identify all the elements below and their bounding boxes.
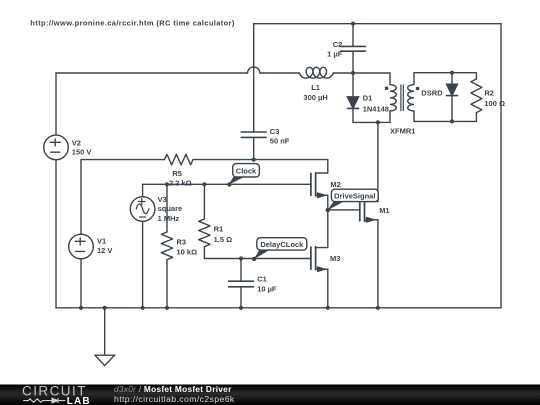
diode D1 — [347, 97, 358, 108]
svg-text:M3: M3 — [330, 254, 340, 263]
svg-text:1N4148: 1N4148 — [363, 104, 389, 113]
svg-text:DelayCLock: DelayCLock — [260, 240, 304, 249]
svg-text:2.2 kΩ: 2.2 kΩ — [169, 179, 192, 188]
wire drive signal net (gate of M1) — [328, 209, 360, 211]
voltage source V3 — [130, 197, 155, 222]
svg-text:V2: V2 — [72, 139, 81, 148]
wire M2 source to M3 drain — [316, 195, 328, 247]
wire secondary loop top — [414, 72, 476, 74]
node delay wire / C1 junction — [239, 256, 243, 260]
svg-text:C1: C1 — [257, 275, 267, 284]
diode DSRD — [447, 84, 458, 95]
wire M1 drain — [365, 122, 378, 201]
node ground rail / M3 source — [326, 306, 330, 310]
node DriveSignal (M2 source / M3 drain / M1 gate) — [326, 208, 330, 212]
wire C1 branch bottom — [240, 287, 242, 308]
node XFMR primary bottom / M1 drain junction — [376, 120, 380, 124]
resistor R3 — [161, 232, 172, 260]
wire C3 branch lower — [253, 138, 255, 159]
wire R1 branch top — [203, 184, 205, 219]
svg-text:1.5 Ω: 1.5 Ω — [214, 235, 233, 244]
svg-text:http://www.pronine.ca/rccir.ht: http://www.pronine.ca/rccir.htm (RC time… — [30, 18, 235, 27]
wire V1 branch top — [80, 160, 82, 235]
svg-text:1 µF: 1 µF — [327, 49, 343, 58]
inductor L1 — [300, 67, 334, 78]
svg-text:M1: M1 — [379, 206, 389, 215]
wire V3 branch top — [142, 184, 144, 196]
svg-text:C2: C2 — [333, 40, 343, 49]
wire top-left horizontal with hop over C3 branch — [56, 67, 390, 73]
net flag DelayCLock — [252, 238, 307, 261]
wire R3 branch top — [166, 184, 168, 232]
svg-text:D1: D1 — [363, 93, 373, 102]
svg-text:1 MHz: 1 MHz — [158, 214, 180, 223]
transformer XFMR1 secondary — [413, 73, 415, 122]
wire R3 branch bottom — [166, 260, 168, 308]
voltage source V2 — [44, 135, 69, 160]
node ground rail / V1 — [79, 306, 83, 310]
svg-text:d3x0r / Mosfet Mosfet Driver: d3x0r / Mosfet Mosfet Driver — [114, 384, 232, 394]
node ground rail / M1 source — [376, 306, 380, 310]
svg-text:R1: R1 — [214, 225, 224, 234]
svg-text:square: square — [158, 204, 183, 213]
svg-text:DriveSignal: DriveSignal — [334, 192, 375, 201]
wire bottom rail — [56, 307, 501, 309]
wire C2 branch upper — [352, 24, 354, 46]
svg-text:LAB: LAB — [67, 396, 91, 405]
svg-text:C3: C3 — [270, 127, 280, 136]
wire right rail — [500, 24, 502, 308]
net flag DriveSignal — [326, 189, 379, 212]
svg-text:10 µF: 10 µF — [257, 284, 277, 293]
wire left rail top (V2 to top-left corner) — [55, 73, 57, 135]
transistor M1 — [359, 199, 361, 221]
node top rail / C2 junction — [351, 22, 355, 26]
svg-text:DSRD: DSRD — [421, 89, 443, 98]
svg-text:R2: R2 — [484, 89, 494, 98]
XFMR1 primary phase dot — [385, 87, 389, 91]
resistor R5 — [165, 154, 194, 165]
wire C1 branch top — [240, 259, 242, 281]
transistor M3 — [310, 247, 312, 269]
wire C3 branch upper — [253, 24, 255, 132]
wire C2 branch lower — [352, 52, 354, 73]
wire clock net (gate of M2) — [143, 183, 311, 185]
transistor M2 — [310, 173, 312, 195]
svg-text:Clock: Clock — [236, 167, 257, 176]
wire DSRD anode — [451, 73, 453, 84]
svg-text:V3: V3 — [158, 195, 167, 204]
wire top rail — [254, 23, 501, 25]
node clock wire / R3 junction — [165, 182, 169, 186]
node ground rail / ground stem — [103, 306, 107, 310]
wire secondary loop bottom — [414, 120, 476, 122]
node clock wire / R1 junction — [202, 182, 206, 186]
svg-text:50 nF: 50 nF — [270, 137, 290, 146]
wire M2 drain link — [316, 160, 328, 173]
wire R2 stems — [475, 73, 477, 122]
wire R1 bottom to delay net — [203, 247, 205, 259]
wire V3 branch bottom — [142, 221, 144, 307]
wire delay clock net (gate of M3) — [204, 258, 311, 260]
svg-text:12 V: 12 V — [97, 246, 112, 255]
svg-text:R5: R5 — [172, 169, 182, 178]
voltage source V1 — [69, 234, 94, 259]
svg-text:150 V: 150 V — [72, 148, 92, 157]
node ground rail / R3 — [165, 306, 169, 310]
svg-text:V1: V1 — [97, 236, 106, 245]
svg-text:L1: L1 — [311, 83, 320, 92]
wire XFMR primary bottom link — [353, 121, 390, 123]
node C3 / R5 wire junction — [252, 158, 256, 162]
net flag Clock — [227, 164, 259, 187]
svg-text:http://circuitlab.com/c2spe6k: http://circuitlab.com/c2spe6k — [114, 394, 235, 404]
XFMR1 secondary phase dot — [416, 87, 420, 91]
svg-text:R3: R3 — [177, 237, 187, 246]
svg-text:XFMR1: XFMR1 — [390, 126, 415, 135]
resistor R1 — [199, 219, 210, 247]
wire D1 anode — [352, 73, 354, 97]
capacitor C2 — [341, 46, 366, 51]
wire M3 source down — [327, 269, 329, 308]
svg-text:M2: M2 — [330, 180, 340, 189]
footer bar — [0, 385, 540, 405]
ground — [95, 308, 115, 366]
footer logo resistor-diode glyph — [23, 398, 65, 403]
wire DSRD cathode — [451, 96, 453, 122]
node secondary bottom / DSRD junction — [450, 119, 454, 123]
wire left rail bottom (V2 to ground rail) — [55, 160, 57, 308]
wire R5 row horizontal — [81, 159, 328, 161]
transformer XFMR1 primary — [389, 73, 391, 122]
resistor R2 — [471, 79, 482, 113]
svg-text:100 Ω: 100 Ω — [484, 99, 505, 108]
node L1 / C2 / D1 / XFMR primary junction — [351, 71, 355, 75]
node dots — [79, 22, 454, 310]
capacitor C3 — [241, 132, 266, 137]
wire M1 source down — [377, 220, 379, 308]
svg-text:300 µH: 300 µH — [303, 93, 327, 102]
wire D1 cathode — [352, 109, 354, 123]
node secondary top / DSRD junction — [450, 71, 454, 75]
transformer XFMR1 core — [401, 85, 403, 111]
node ground rail / C1 — [239, 306, 243, 310]
capacitor C1 — [229, 281, 254, 287]
svg-text:10 kΩ: 10 kΩ — [177, 248, 198, 257]
wire V1 branch bottom — [80, 259, 82, 308]
node ground rail / V3 — [141, 306, 145, 310]
